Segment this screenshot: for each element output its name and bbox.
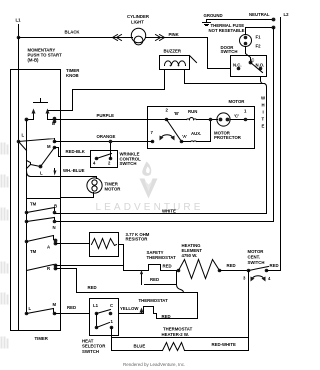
svg-text:B: B <box>52 121 55 126</box>
node motor junction <box>209 118 213 122</box>
node N terminal <box>53 220 57 230</box>
svg-text:'B': 'B' <box>174 111 179 116</box>
watermark logo V <box>140 162 158 199</box>
timer blade L-M <box>19 139 55 142</box>
wire resistor out <box>119 245 124 266</box>
svg-text:A: A <box>47 245 50 250</box>
svg-text:THERMOSTAT: THERMOSTAT <box>139 298 169 303</box>
node junction L1 <box>17 36 21 40</box>
svg-text:BLUE: BLUE <box>134 344 146 349</box>
timer sub-box <box>27 198 61 200</box>
node M contact <box>47 140 56 150</box>
svg-text:C: C <box>110 303 113 308</box>
node A terminal <box>47 239 57 250</box>
wire bus notch <box>27 161 31 169</box>
svg-text:SWITCH: SWITCH <box>221 49 238 54</box>
resistor R1 3.77k <box>90 232 150 257</box>
node B terminal <box>53 204 57 215</box>
svg-text:WH.-BLUE: WH.-BLUE <box>63 168 85 173</box>
svg-text:(M-B): (M-B) <box>28 58 40 63</box>
wire R red <box>56 269 198 293</box>
wire protector to 1 <box>231 119 255 121</box>
motor arc <box>161 135 174 139</box>
aux winding <box>182 121 211 142</box>
wire arrow to B <box>48 117 55 120</box>
wire motor 7 lead <box>148 141 153 143</box>
node L upper <box>17 133 25 144</box>
wire A to resistor <box>56 243 90 245</box>
svg-text:HEATER-2 W.: HEATER-2 W. <box>162 332 189 337</box>
svg-text:MOTOR: MOTOR <box>248 249 265 254</box>
node TM contact 2 <box>25 220 29 224</box>
motor centrifugal switch S3 <box>243 249 271 282</box>
node R terminal <box>47 264 57 271</box>
svg-text:RUN: RUN <box>188 109 197 114</box>
wire timer to heat selector <box>55 305 90 314</box>
thermal fuse F <box>209 23 262 63</box>
node junction neutral 2 <box>272 26 276 30</box>
wire cent to L2 <box>267 263 281 271</box>
svg-text:LIGHT: LIGHT <box>131 20 144 25</box>
wire heater junction down <box>177 271 184 293</box>
wire bottom bridge <box>112 337 249 339</box>
node motor 1 <box>244 109 248 122</box>
svg-text:NOT RESETABLE: NOT RESETABLE <box>209 28 245 33</box>
thermostat heater R3 <box>162 326 193 350</box>
wrinkle control switch S2 <box>91 151 142 168</box>
svg-text:Rendered by LeadVenture, Inc.: Rendered by LeadVenture, Inc. <box>123 362 185 367</box>
svg-text:SELECTOR: SELECTOR <box>82 344 106 349</box>
svg-text:B: B <box>54 204 57 209</box>
timer blade bottom <box>27 309 54 314</box>
svg-text:H: H <box>262 103 265 108</box>
svg-text:RED: RED <box>67 305 76 310</box>
svg-text:L: L <box>29 306 32 311</box>
svg-text:MOTOR: MOTOR <box>105 187 122 192</box>
white vertical label <box>261 96 266 129</box>
wire blue <box>112 344 163 351</box>
node TM contact 3 <box>25 240 37 254</box>
svg-text:4750 W.: 4750 W. <box>182 253 198 258</box>
buzzer BZ <box>160 49 197 70</box>
wire PURPLE <box>55 113 167 120</box>
timer blade TM-B <box>27 208 55 213</box>
node L2 <box>284 12 290 17</box>
svg-text:TIMER: TIMER <box>35 336 49 341</box>
contact arrow right <box>47 111 49 117</box>
svg-text:RED: RED <box>162 314 171 319</box>
node timer M bottom <box>53 302 57 315</box>
wire WHITE to B <box>55 209 267 214</box>
timer motor TM <box>87 178 121 193</box>
wire L1 feed <box>18 38 20 331</box>
motor blade 2-A <box>167 120 182 142</box>
svg-text:I: I <box>263 110 264 115</box>
svg-text:N.C.: N.C. <box>233 63 242 68</box>
svg-text:N: N <box>53 225 56 230</box>
node junction neutral <box>272 18 276 22</box>
svg-text:YELLOW: YELLOW <box>120 306 139 311</box>
svg-text:PURPLE: PURPLE <box>97 113 115 118</box>
wire PINK <box>146 32 231 69</box>
wire L2 <box>280 18 282 271</box>
wire RED-BLK <box>55 148 91 157</box>
svg-text:E: E <box>262 124 265 129</box>
wire L1 lead <box>18 25 20 38</box>
door switch S1 <box>221 45 267 77</box>
wire white from NO <box>261 77 267 214</box>
node motor A <box>180 131 202 143</box>
svg-text:M: M <box>47 144 51 149</box>
motor box M1 <box>148 99 255 149</box>
wire buzzer left lead <box>48 70 165 111</box>
svg-text:F1: F1 <box>256 35 262 40</box>
run winding <box>167 109 218 120</box>
motor protector MP <box>214 113 242 140</box>
svg-text:RED-BLK: RED-BLK <box>66 149 86 154</box>
wire bus <box>26 120 28 314</box>
svg-text:L1: L1 <box>93 303 99 308</box>
timer box <box>11 68 81 341</box>
svg-text:L: L <box>40 171 43 176</box>
svg-text:C: C <box>251 57 254 62</box>
safety thermostat TS1 <box>140 250 176 285</box>
node element end <box>218 269 222 273</box>
node TM contact 1 <box>25 202 37 215</box>
timer blade R <box>27 265 54 271</box>
svg-text:TM: TM <box>30 249 37 254</box>
svg-text:PROTECTOR: PROTECTOR <box>214 135 242 140</box>
contact arrow left <box>33 111 35 117</box>
node wrinkle tap <box>109 140 113 144</box>
connector chevrons right <box>156 35 165 41</box>
svg-text:THERMOSTAT: THERMOSTAT <box>163 326 193 331</box>
svg-text:RED-WHITE: RED-WHITE <box>212 342 236 347</box>
svg-text:T: T <box>262 117 265 122</box>
svg-text:LEADVENTURE: LEADVENTURE <box>96 202 204 213</box>
svg-text:ORANGE: ORANGE <box>97 134 116 139</box>
cam switch symbol <box>34 99 48 103</box>
svg-text:F2: F2 <box>256 44 262 49</box>
contact arrow down <box>54 169 57 176</box>
wire R upper to resistor <box>56 266 149 271</box>
wire element to cent switch <box>220 263 249 271</box>
svg-text:BLACK: BLACK <box>65 30 81 35</box>
svg-text:L: L <box>22 133 25 138</box>
svg-text:'C': 'C' <box>234 114 239 119</box>
wire BLACK <box>19 30 133 38</box>
svg-text:THERMOSTAT: THERMOSTAT <box>147 255 177 260</box>
svg-text:SWITCH: SWITCH <box>82 349 99 354</box>
node bus top <box>25 118 29 122</box>
node heater junction <box>177 269 181 273</box>
svg-text:MOTOR: MOTOR <box>229 99 246 104</box>
ground <box>203 13 223 26</box>
svg-text:SWITCH: SWITCH <box>248 260 265 265</box>
svg-text:PINK: PINK <box>169 32 180 37</box>
svg-text:N.O.: N.O. <box>256 63 265 68</box>
node motor 7 <box>151 130 155 143</box>
svg-text:RED: RED <box>270 263 279 268</box>
svg-text:M: M <box>53 302 57 307</box>
svg-text:BUZZER: BUZZER <box>164 49 182 54</box>
svg-text:'A': 'A' <box>182 134 187 139</box>
node motor 2 <box>165 108 179 122</box>
svg-text:CENT.: CENT. <box>248 255 260 260</box>
wire neutral second <box>246 27 274 29</box>
timer blade lower steep <box>41 148 55 167</box>
wire bus to wh-blue <box>27 171 31 177</box>
node L1 <box>16 18 22 23</box>
wire ORANGE <box>55 134 153 142</box>
connector chevrons left <box>113 35 122 41</box>
wire neutral top <box>207 12 274 20</box>
wire thermostat drop <box>157 293 198 319</box>
wire neutral down <box>55 28 274 222</box>
svg-text:RED: RED <box>227 263 236 268</box>
thermostat TS2 <box>139 298 169 314</box>
wire buzzer right lead <box>185 70 265 84</box>
heating element R2 <box>179 243 220 279</box>
svg-text:KNOB: KNOB <box>66 73 79 78</box>
svg-text:L1: L1 <box>16 18 22 23</box>
svg-text:L2: L2 <box>284 12 290 17</box>
cylinder light CL <box>127 14 150 45</box>
wire bus to arrow <box>27 117 34 120</box>
wire red jog <box>145 277 177 285</box>
wire heater main <box>161 270 179 272</box>
wire L to bus <box>19 142 27 151</box>
svg-text:CYLINDER: CYLINDER <box>127 14 150 19</box>
watermark edge marks <box>2 144 8 348</box>
heat selector switch S4 <box>82 299 119 354</box>
wire heat selector down <box>111 328 113 351</box>
wire wrinkle tap <box>110 142 112 159</box>
wire timer motor return <box>62 193 94 198</box>
node B contact <box>52 117 56 126</box>
svg-text:GROUND: GROUND <box>204 13 223 18</box>
svg-text:RED: RED <box>163 264 172 269</box>
svg-text:TM: TM <box>30 202 37 207</box>
svg-text:WHITE: WHITE <box>162 209 176 214</box>
svg-text:AUX.: AUX. <box>191 131 201 136</box>
svg-text:RESISTOR: RESISTOR <box>126 237 149 242</box>
svg-text:NEUTRAL: NEUTRAL <box>249 12 270 17</box>
momentary push to start text <box>28 48 63 63</box>
wire red-white <box>185 342 249 351</box>
node L lower <box>31 165 44 176</box>
svg-text:RED: RED <box>88 285 97 290</box>
svg-text:RED: RED <box>150 277 159 282</box>
wire WH.-BLUE <box>31 168 97 179</box>
timer blade TM-N <box>27 218 55 222</box>
svg-text:SWITCH: SWITCH <box>120 161 137 166</box>
timer blade TM-A <box>27 236 54 242</box>
wire yellow <box>119 306 157 314</box>
wire cent 3 down <box>248 271 250 351</box>
node timer L bottom <box>25 306 32 315</box>
